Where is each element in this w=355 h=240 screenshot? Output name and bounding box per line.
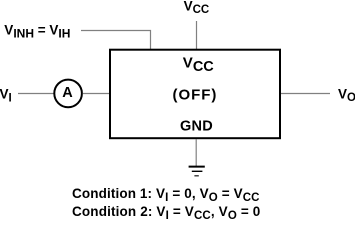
svg-text:GND: GND	[180, 119, 213, 135]
svg-text:A: A	[62, 85, 73, 101]
device box (OFF state)	[110, 50, 280, 139]
svg-text:VCC: VCC	[183, 54, 214, 75]
wire VI to ammeter	[18, 93, 54, 95]
wire box to VO	[281, 93, 330, 95]
svg-text:Condition 2: VI = VCC, VO = 0: Condition 2: VI = VCC, VO = 0	[72, 204, 260, 220]
ammeter A	[54, 80, 82, 108]
svg-text:(OFF): (OFF)	[173, 86, 218, 103]
svg-text:VO: VO	[338, 86, 355, 104]
svg-text:Condition 1: VI = 0, VO = VCC: Condition 1: VI = 0, VO = VCC	[72, 186, 260, 204]
wire VINH to box top	[81, 31, 151, 50]
wire GND pin to ground	[195, 139, 197, 166]
ground	[189, 167, 205, 176]
wire ammeter to box	[83, 93, 110, 95]
svg-text:VI: VI	[0, 86, 12, 104]
svg-text:VCC: VCC	[184, 0, 210, 16]
wire VCC supply to box top	[196, 21, 198, 49]
svg-text:VINH = VIH: VINH = VIH	[4, 23, 70, 41]
